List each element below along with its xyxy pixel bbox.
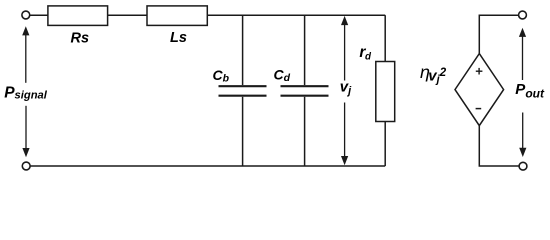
annotation arrow Pout (519, 28, 527, 157)
wire: bottom bus from input terminal to right edge (30, 165, 385, 167)
wire: right edge top segment to rd (384, 15, 386, 61)
terminal node: output + (top-right) (519, 11, 527, 19)
wire: source bottom to output terminal (479, 126, 519, 166)
capacitor Cd (281, 15, 329, 166)
svg-text:rd: rd (359, 44, 372, 63)
wire: right edge bottom segment from rd (384, 122, 386, 167)
svg-text:vj: vj (340, 79, 352, 97)
resistor rd (376, 62, 395, 122)
polarity + (inside source, top) (476, 68, 483, 75)
svg-text:Ls: Ls (170, 30, 187, 46)
svg-text:Cd: Cd (274, 66, 291, 84)
terminal node: output − (bottom-right) (519, 162, 527, 170)
svg-text:Rs: Rs (71, 31, 90, 47)
annotation arrow Psignal (22, 26, 29, 157)
polarity − (inside source, bottom) (476, 108, 482, 110)
svg-text:Pout: Pout (515, 81, 545, 100)
svg-text:vj2: vj2 (428, 67, 446, 85)
svg-text:Cb: Cb (213, 67, 230, 85)
wire: source top to output terminal (479, 15, 518, 53)
dependent source diamond (η vj²) (455, 54, 504, 126)
inductor Ls (box symbol) (147, 6, 207, 26)
resistor Rs (48, 6, 108, 26)
annotation arrow vj (voltage across junction) (341, 16, 348, 165)
capacitor Cb (219, 15, 267, 166)
svg-text:Psignal: Psignal (4, 85, 48, 102)
terminal node: input + (top-left) (22, 11, 30, 19)
wire: top bus from input terminal to right edge (30, 14, 385, 16)
terminal node: input − (bottom-left) (22, 162, 30, 170)
